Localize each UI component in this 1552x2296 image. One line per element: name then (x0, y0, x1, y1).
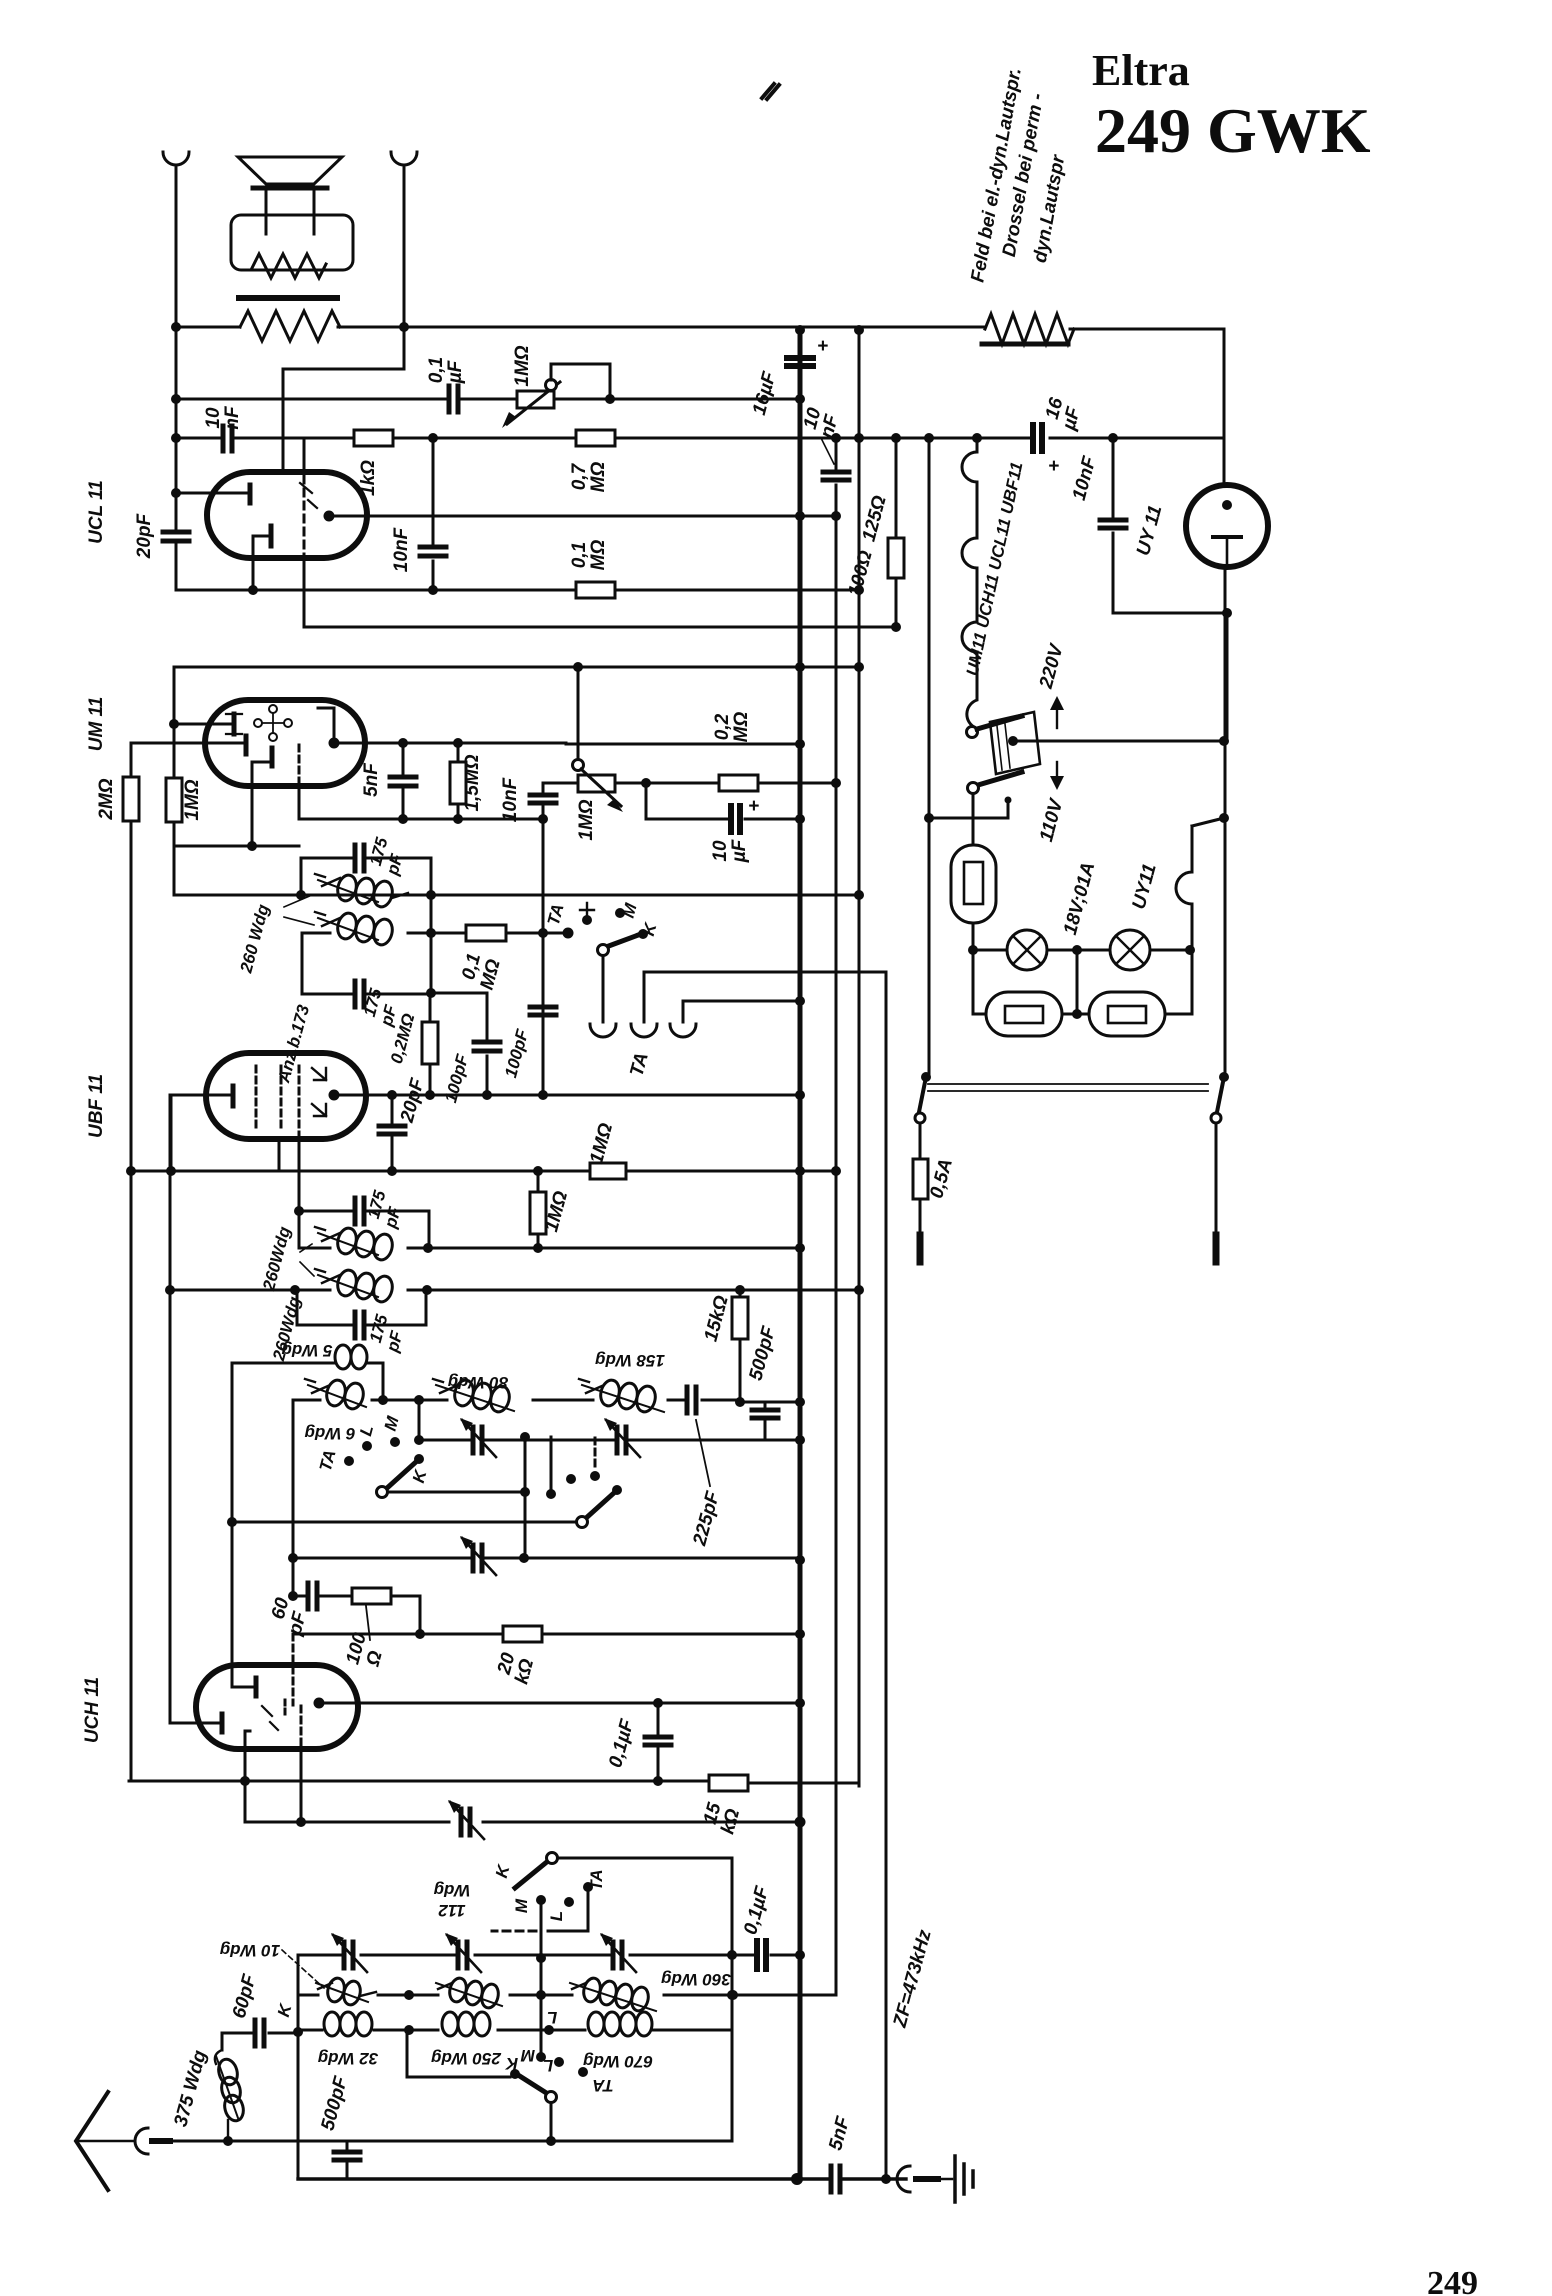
svg-text:1MΩ: 1MΩ (576, 799, 597, 840)
trimmer cap 1 (473, 1427, 482, 1453)
switch blade 2 (585, 1492, 615, 1519)
coil 5Wdg (335, 1345, 367, 1369)
wire right bus x1224 (1224, 330, 1225, 1077)
wire 1M vert chain (537, 1171, 540, 1248)
wire y590 cathode bus (176, 589, 859, 592)
capacitor 16uF b plates (1033, 425, 1042, 451)
switch blade K bf (386, 1461, 417, 1489)
trimmer cap 3 (473, 1545, 482, 1571)
node 419,1400 (414, 1395, 424, 1405)
UM11 plate node (329, 738, 340, 749)
node 428,1248 (423, 1243, 433, 1253)
resistor 125ohm (888, 538, 904, 578)
capacitor 100pF b plates (530, 1007, 556, 1015)
contact TA bot2 (578, 2067, 588, 2077)
node 543,819 (538, 814, 548, 824)
node 295,1290 (290, 1285, 300, 1295)
svg-text:10: 10 (710, 840, 731, 862)
wire x298 drop (297, 1955, 300, 2179)
node 176,438 (171, 433, 181, 443)
resistor 1M vert (530, 1192, 546, 1234)
svg-text:µF: µF (445, 359, 466, 384)
svg-text:L: L (543, 2056, 553, 2075)
node 525,1492 (520, 1487, 530, 1497)
wire 5nF branch (402, 743, 405, 819)
arrow 220V (1056, 705, 1058, 728)
voltage selector body (990, 712, 1040, 774)
resistor 0.1M cathode (576, 582, 615, 598)
contact TA bot (583, 1882, 593, 1892)
wire coil row1 y2030 (298, 2029, 731, 2032)
wire ballast bottom (972, 923, 975, 1014)
svg-text:0,2: 0,2 (712, 713, 733, 740)
label 225 pointer (696, 1420, 710, 1486)
node 431,993 (426, 988, 436, 998)
svg-text:TA: TA (587, 1869, 606, 1890)
field coil core (982, 342, 1068, 347)
lamp 1 (1007, 930, 1047, 970)
wire ift1 cap bracket (301, 858, 431, 895)
coil 6Wdg (305, 1378, 366, 1411)
contact dot 571 (566, 1474, 576, 1484)
wire M drop (540, 1900, 543, 2057)
wire x174 from y667 (173, 667, 176, 778)
mains pin right (1213, 1235, 1220, 1262)
node 176,493 (171, 488, 181, 498)
TA ground sym (580, 903, 594, 918)
UBF11 diode top (312, 1068, 326, 1080)
UBF11 grid bar (231, 1086, 236, 1106)
wire 20pF branch (391, 1095, 394, 1171)
UBF11 cathode drop (278, 1139, 281, 1171)
node 800,1440 (795, 1435, 805, 1445)
capacitor 500pF plates (752, 1410, 778, 1418)
capacitor 60pF ant plates (255, 2020, 264, 2046)
wire screen g2 drop (303, 438, 306, 472)
node 836,783 (831, 778, 841, 788)
capacitor 175pF ift1 top plates (355, 845, 364, 871)
resistor 0.7M (576, 430, 615, 446)
node 383,1400 (378, 1395, 388, 1405)
UBF11 grid wire (171, 1095, 229, 1171)
node 794,1822 (795, 1817, 806, 1828)
svg-text:6 Wdg: 6 Wdg (304, 1424, 356, 1443)
wire plate bus y1095 (334, 1094, 800, 1097)
wire bottom bus y2179 (298, 2177, 906, 2180)
ballast resistor oval 2 (1089, 992, 1165, 1036)
wire x299 grid drop (298, 1139, 301, 1248)
node 732,1955 (727, 1950, 737, 1960)
wire y438 (176, 437, 1224, 440)
capacitor 10uF plates (731, 806, 740, 832)
capacitor 0.1uF osc plates (645, 1737, 671, 1745)
wire 5wdg row (232, 1363, 383, 1400)
UCL11 pentode marks (300, 483, 317, 508)
bracket 250wdg to contact (407, 2030, 510, 2077)
svg-text:µF: µF (729, 838, 750, 863)
capacitor 10nF uy plates (1100, 520, 1126, 528)
svg-text:1,5MΩ: 1,5MΩ (462, 754, 483, 811)
tube UBF11 envelope (206, 1053, 366, 1139)
node 252,846 (247, 841, 257, 851)
wire x232 drop (231, 1363, 234, 1687)
node 430,1095 (425, 1090, 435, 1100)
coil 112Wdg (436, 1976, 502, 2009)
resistor 15k osc (709, 1775, 748, 1791)
node 299,1211 (294, 1206, 304, 1216)
wire 1077 drop (1076, 950, 1079, 1014)
capacitor 500pF ant plates (334, 2152, 360, 2160)
node 431,895 (426, 890, 436, 900)
wire y1171 (129, 1170, 836, 1173)
contact M bot (536, 1895, 546, 1905)
wire right switch drop (1215, 1123, 1218, 1235)
node 733,1995 (728, 1990, 738, 2000)
node 174,724 (169, 719, 179, 729)
selector mid contact (1008, 736, 1018, 746)
resistor 2M (123, 777, 139, 821)
capacitor 10nF cathode plates (420, 547, 446, 556)
node 578,667 (573, 662, 583, 672)
svg-text:MΩ: MΩ (588, 540, 609, 571)
pot wiper terminal circle (546, 380, 557, 391)
wire 1.5M branch (457, 743, 460, 819)
mains link lines (928, 1084, 1208, 1091)
wire 2M chain x131 (130, 743, 133, 1781)
node 800,330 (795, 325, 805, 335)
svg-text:0,1: 0,1 (426, 357, 447, 383)
node 610,399 (605, 394, 615, 404)
node 1190,950 (1185, 945, 1195, 955)
resistor 0.2M vert (422, 1022, 438, 1064)
node 431,933 (426, 928, 436, 938)
wire coil row2 y1995 (298, 1994, 836, 1997)
node 524,1558 (519, 1553, 529, 1563)
node 403,819 (398, 814, 408, 824)
svg-text:MΩ: MΩ (588, 462, 609, 493)
antenna terminal (135, 2128, 148, 2154)
potentiometer 1M volume (517, 391, 554, 408)
node 538,1248 (533, 1243, 543, 1253)
UM11 target wire (174, 723, 232, 726)
ballast tube urdox (951, 845, 996, 923)
node 176,399 (171, 394, 181, 404)
speaker neck (266, 188, 314, 234)
node 433,438 (428, 433, 438, 443)
UM11 separator dashed (298, 745, 301, 786)
node 896,440 (891, 433, 901, 443)
UCH11 grid1 bar (254, 1678, 259, 1696)
wire x525 riser (524, 1437, 527, 1560)
wire y1522 (232, 1521, 576, 1524)
tube UCL11 envelope (207, 472, 367, 558)
node 866,590 (854, 585, 864, 595)
svg-text:UM 11: UM 11 (86, 697, 107, 752)
speaker horn (238, 157, 342, 184)
wire osc grid dashed (292, 1634, 295, 1705)
svg-text:+: + (817, 336, 828, 357)
antenna symbol (76, 2092, 108, 2190)
node 1227,613 (1222, 608, 1232, 618)
node 293,1558 (288, 1553, 298, 1563)
resistor 1M um11 (166, 778, 182, 822)
node 543,1095 (538, 1090, 548, 1100)
node 646,783 (641, 778, 651, 788)
node 1113,438 (1108, 433, 1118, 443)
terminal hook 3 (670, 1024, 696, 1037)
wire uy bottom to bus (1226, 613, 1229, 741)
node 859,897 (854, 890, 864, 900)
svg-text:670 Wdg: 670 Wdg (582, 2052, 653, 2071)
UCL11 grid wire (176, 492, 248, 495)
node 458,743 (453, 738, 463, 748)
wire trimmer row y1955 (298, 1954, 800, 1957)
svg-text:249: 249 (1427, 2265, 1478, 2296)
node 800,1402 (795, 1397, 805, 1407)
wire hook2 riser (644, 972, 886, 1022)
capacitor 16uF a plates (787, 358, 813, 366)
wire y1560 osc (293, 1557, 800, 1560)
node 293,1596 (288, 1591, 298, 1601)
label 10nF pointer (822, 440, 834, 464)
node 800,1248 (795, 1243, 805, 1253)
wire y1402 (740, 1401, 800, 1404)
transformer core bar (239, 295, 337, 301)
wire antenna y2141 (170, 2140, 730, 2143)
wire row trimmer y1440 (419, 1400, 800, 1440)
contact M dot (615, 908, 625, 918)
svg-text:1MΩ: 1MΩ (182, 779, 203, 820)
capacitor 0.1uF ant plates (757, 1941, 766, 1969)
label 100 pointer (366, 1606, 370, 1640)
UM11 screen bracket (318, 708, 334, 740)
svg-text:20pF: 20pF (134, 512, 155, 559)
wire y1822 (245, 1821, 800, 1824)
wire x301 osc drop (300, 1749, 303, 1822)
node 740,1402 (735, 1397, 745, 1407)
wire plate y1703 (319, 1702, 800, 1705)
switch blade K (606, 934, 641, 947)
pointer 260wdg ift1 (284, 895, 314, 925)
svg-text:L: L (547, 1911, 566, 1921)
resistor 0.1M mid (466, 925, 506, 941)
contact L dot (362, 1441, 372, 1451)
wire selector to right bus (1013, 740, 1224, 743)
terminal left speaker (163, 152, 189, 165)
pen mark top (762, 84, 779, 99)
wire y1783 (129, 1781, 859, 1783)
node 794,2179 (791, 2173, 803, 2185)
node 409,1995 (404, 1990, 414, 2000)
wire 10nF uy branch (1113, 438, 1227, 613)
UM11 grid2 wire (131, 742, 244, 745)
wire x170 left (169, 1095, 172, 1723)
node 298,2032 (293, 2027, 303, 2037)
heater chain bumps (962, 438, 977, 728)
resistor 1.5M (450, 762, 466, 804)
node 800,744 (795, 739, 805, 749)
svg-text:10nF: 10nF (500, 776, 521, 822)
node 170,1290 (165, 1285, 175, 1295)
svg-text:UCH 11: UCH 11 (82, 1677, 103, 1743)
node 973,950 (968, 945, 978, 955)
capacitor 0.1uF plates (449, 386, 458, 412)
wire 10uF branch (646, 783, 800, 819)
tube UM11 envelope (205, 700, 365, 786)
wire y1634 osc (293, 1633, 800, 1636)
svg-text:10nF: 10nF (391, 526, 412, 572)
selector top contact (967, 727, 978, 738)
svg-text:Wdg: Wdg (433, 1881, 470, 1900)
contact L bot2 (554, 2057, 564, 2067)
wire oval row y1014 (973, 1013, 1192, 1016)
wire ift2 low bracket (297, 1290, 426, 1325)
svg-text:360 Wdg: 360 Wdg (660, 1970, 731, 1989)
node 1077,1014 (1072, 1009, 1082, 1019)
wire 1M bottom (173, 724, 176, 846)
node 403,743 (398, 738, 408, 748)
wire K row y1492 (388, 1491, 525, 1494)
capacitor 100pF a plates (474, 1042, 500, 1051)
UM11 cathode (270, 748, 275, 766)
wire 60pF row (293, 1596, 420, 1634)
UCH11 plate node (314, 1698, 325, 1709)
node speaker left (171, 322, 181, 332)
UBF11 diode bottom (312, 1104, 326, 1116)
tube UCH11 envelope (196, 1665, 358, 1749)
fuse 0.5A (913, 1159, 928, 1199)
svg-text:Eltra: Eltra (1092, 46, 1190, 95)
terminal right speaker (391, 152, 417, 165)
switch box bottom (556, 1858, 732, 2141)
wire x886 (885, 972, 888, 2179)
wire 60pF ant row (222, 2033, 298, 2050)
svg-text:1MΩ: 1MΩ (512, 345, 533, 386)
wire selector bottom drop (972, 794, 975, 845)
node 929,440 (924, 433, 934, 443)
pot2 wiper circle (573, 760, 584, 771)
wire x299 drop (298, 786, 301, 819)
svg-text:5 Wdg: 5 Wdg (281, 1341, 333, 1360)
svg-text:5nF: 5nF (361, 762, 382, 797)
node 857,1290 (854, 1285, 864, 1295)
node 977,440 (972, 433, 982, 443)
terminal hook 1 (590, 1024, 616, 1037)
node 800,1001 (795, 996, 805, 1006)
UCH11 grid3 wire (170, 1722, 219, 1725)
svg-text:32 Wdg: 32 Wdg (317, 2049, 378, 2068)
wire y1248 (299, 1247, 800, 1250)
node 658,1703 (653, 1698, 663, 1708)
node speaker right (399, 322, 409, 332)
node 427,1290 (422, 1285, 432, 1295)
trimmer ant M (458, 1942, 467, 1968)
wire ift2 cap wire (299, 1211, 429, 1248)
wire left bus upper (175, 165, 178, 590)
wire dashed stub (492, 1930, 536, 1933)
field coil zigzag left (240, 311, 340, 341)
capacitor 175pF ift2 top plates (355, 1198, 364, 1224)
wire x174 846-895 (173, 846, 176, 895)
node 800,1562 (795, 1555, 805, 1565)
UY11 inner stem (1226, 537, 1229, 565)
node 1224,818 (1219, 813, 1229, 823)
node 458,819 (453, 814, 463, 824)
wire y399 (176, 398, 800, 401)
wire 0.2M chain (429, 993, 432, 1095)
svg-text:UCL 11: UCL 11 (86, 480, 107, 544)
svg-text:L: L (547, 2008, 557, 2027)
UY11 plate bar (1213, 535, 1241, 539)
capacitor 5nF bottom plates (831, 2166, 840, 2192)
field coil zigzag right (985, 314, 1074, 344)
wire 0.1uF branch (657, 1703, 660, 1781)
node 301,1822 (296, 1817, 306, 1827)
wire top bus y328 (176, 327, 1224, 329)
wire x578 to wiper (577, 667, 580, 760)
svg-text:TA: TA (592, 2076, 613, 2095)
svg-text:K: K (504, 2054, 518, 2073)
svg-text:2MΩ: 2MΩ (96, 778, 117, 820)
UCH11 inner dashes (262, 1706, 278, 1730)
wire y819 (299, 818, 543, 821)
wire 500pF ant branch (346, 2141, 349, 2179)
wire y1290 (171, 1289, 859, 1292)
wire pot2 left (543, 782, 578, 785)
node 800,1634 (795, 1629, 805, 1639)
node 836,1176 (831, 1166, 841, 1176)
lamp 2 (1110, 930, 1150, 970)
node 740,1290 (735, 1285, 745, 1295)
UCL11 cathode (269, 526, 274, 546)
svg-text:10: 10 (203, 407, 224, 429)
wire fuse chain (919, 1123, 922, 1235)
wire x293 drop (292, 1400, 295, 1596)
wire 15k chain (739, 1290, 742, 1402)
coil ift2 primary (315, 1226, 395, 1262)
wire ift1 lower bracket (302, 895, 431, 994)
node 543,933 (538, 928, 548, 938)
UBF11 dashed electrodes (255, 1066, 258, 1128)
svg-text:250 Wdg: 250 Wdg (430, 2049, 502, 2068)
svg-text:UBF 11: UBF 11 (86, 1074, 107, 1138)
node 836,516 (831, 511, 841, 521)
capacitor 20pF series plates (163, 532, 189, 541)
svg-text:0,7: 0,7 (569, 462, 590, 490)
wire x543 ta chain (542, 783, 545, 1095)
pointer 260wdg ift2 (300, 1244, 314, 1276)
UCH11 grid3 bar (220, 1714, 225, 1732)
label 10wdg pointer (282, 1950, 324, 1988)
coil 10Wdg (316, 1976, 376, 2006)
svg-text:M: M (512, 1898, 531, 1913)
node 859,667 (854, 662, 864, 672)
arrow 110V (1056, 762, 1058, 782)
trimmer ant K (344, 1942, 353, 1968)
contact M dot (390, 1437, 400, 1447)
node 131,1171 (126, 1166, 136, 1176)
coil 375Wdg vertical (215, 2050, 246, 2141)
node 658,1781 (653, 1776, 663, 1786)
node 541,2057 (536, 2052, 546, 2062)
wire 433 down w 10nF (432, 438, 435, 590)
wire y933 coil2 (302, 932, 568, 935)
svg-text:158 Wdg: 158 Wdg (594, 1351, 665, 1370)
wire 500pF stub (764, 1402, 767, 1440)
resistor 15k (732, 1297, 748, 1339)
resistor 100ohm (352, 1588, 391, 1604)
coil 360Wdg (570, 1976, 656, 2012)
